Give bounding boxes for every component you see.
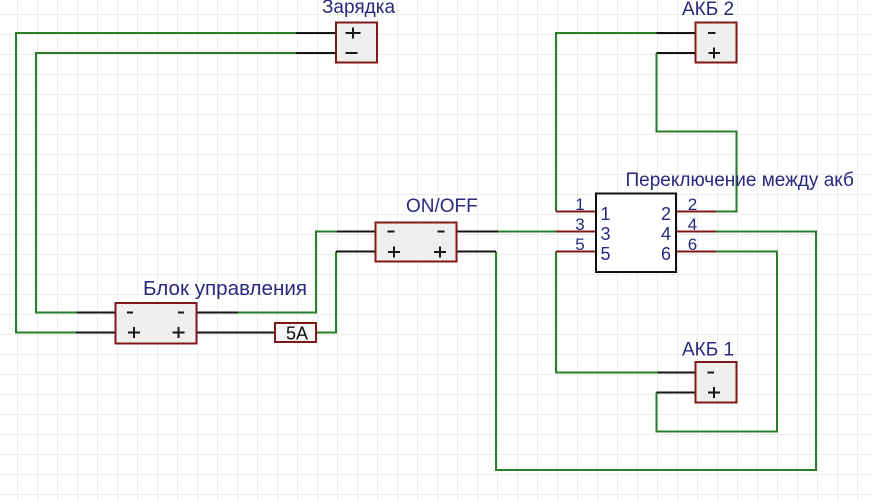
selector pin 2 stub: [675, 211, 716, 213]
svg-text:АКБ 2: АКБ 2: [682, 0, 734, 20]
wire battery AKB1 plus to selector pin 6: [657, 252, 778, 432]
wire charger plus to control unit plus (left outer loop): [16, 33, 296, 333]
pin stub control unit minus right: [197, 311, 238, 313]
pin stub battery AKB1 plus: [657, 391, 697, 393]
svg-text:1: 1: [601, 204, 611, 224]
wire ON/OFF plus right to selector pin 4 (bottom big loop): [496, 232, 816, 471]
pin stub battery AKB2 minus: [657, 32, 697, 34]
selector pin 6 stub: [675, 251, 716, 253]
svg-text:5: 5: [601, 244, 611, 264]
selector pin 1 stub: [556, 211, 597, 213]
svg-text:6: 6: [688, 235, 697, 254]
svg-text:Зарядка: Зарядка: [322, 0, 396, 18]
selector box (6-pin switch): [596, 194, 676, 273]
selector pin 5 stub: [556, 251, 597, 253]
wire fuse output up to ON/OFF plus left: [316, 252, 336, 333]
svg-text:Блок управления: Блок управления: [143, 277, 307, 300]
wire ON/OFF minus right to selector pin 3: [498, 231, 556, 233]
pin stub charger minus: [296, 52, 337, 54]
pin stub battery AKB2 plus: [657, 52, 697, 54]
pin stub control unit plus right to fuse: [197, 331, 276, 333]
pin stub charger plus: [296, 32, 337, 34]
svg-text:4: 4: [661, 224, 671, 244]
selector pin 3 stub: [556, 231, 597, 233]
control unit box (Блок управления): [116, 303, 197, 344]
pin stub ON/OFF plus right: [456, 250, 496, 252]
battery AKB2 box: [696, 23, 737, 63]
pin stub ON/OFF minus right: [456, 230, 498, 232]
svg-text:5А: 5А: [286, 324, 308, 344]
fuse 5A box: [275, 323, 316, 344]
svg-text:4: 4: [688, 215, 697, 234]
charger box (Зарядка): [336, 23, 377, 63]
svg-text:2: 2: [661, 204, 671, 224]
pin stub battery AKB1 minus: [658, 371, 697, 373]
wire selector pin 5 to battery AKB1 minus: [556, 252, 658, 373]
battery AKB1 box: [696, 362, 737, 403]
svg-text:1: 1: [575, 195, 584, 214]
svg-text:Переключение между акб: Переключение между акб: [626, 170, 855, 191]
pin stub ON/OFF minus left: [337, 230, 377, 232]
pin stub control unit plus left: [76, 331, 116, 333]
wire selector pin 2 to battery AKB2 plus: [657, 53, 737, 212]
svg-text:3: 3: [575, 215, 584, 234]
svg-text:6: 6: [661, 244, 671, 264]
wire control unit minus to ON/OFF minus left: [238, 232, 337, 313]
pin stub control unit minus left: [77, 311, 116, 313]
svg-text:АКБ 1: АКБ 1: [682, 340, 734, 361]
svg-text:2: 2: [688, 195, 697, 214]
svg-text:3: 3: [601, 224, 611, 244]
ON/OFF switch box: [376, 223, 457, 262]
wire battery AKB2 minus to selector pin 1: [556, 33, 657, 212]
svg-text:ON/OFF: ON/OFF: [406, 196, 478, 217]
wire charger minus to control unit minus (left inner loop): [36, 53, 296, 313]
pin stub ON/OFF plus left: [336, 250, 377, 252]
selector pin 4 stub: [675, 231, 716, 233]
svg-text:5: 5: [575, 235, 584, 254]
